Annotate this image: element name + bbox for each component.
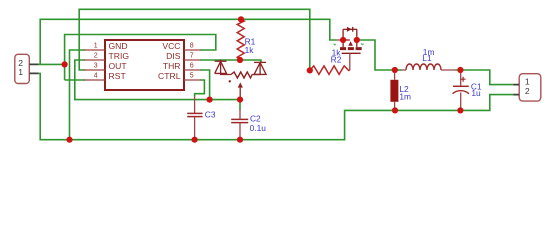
svg-text:C2: C2 — [250, 113, 261, 123]
connector J-left body — [15, 54, 29, 83]
capacitor C1 plus sign — [461, 77, 466, 82]
wire THR drop — [200, 70, 210, 100]
svg-text:OUT: OUT — [109, 61, 128, 71]
svg-text:THR: THR — [163, 61, 181, 71]
wire DIS row — [200, 60, 261, 62]
transistor Q1 channel bars — [340, 47, 362, 50]
IC U1 pin names right — [158, 41, 181, 81]
svg-text:1k: 1k — [245, 45, 255, 55]
svg-text:C3: C3 — [205, 109, 216, 119]
wire connector pin2 to VCC node — [39, 63, 65, 65]
wire CTRL jog to C3 — [195, 80, 205, 97]
transistor Q1 body line and arrow — [343, 39, 350, 41]
capacitor C2 — [239, 110, 241, 120]
IC U1 pin names left — [109, 41, 130, 81]
resistor R2 — [310, 66, 350, 75]
transistor Q1 body diode — [347, 27, 352, 32]
svg-text:5: 5 — [190, 73, 194, 80]
transistor Q1 source pin lead — [337, 39, 344, 41]
svg-text:7: 7 — [190, 53, 194, 60]
wire VCC vertical to IC top and VCC pin — [65, 35, 216, 81]
svg-text:8: 8 — [190, 43, 194, 50]
transistor Q1 P-MOSFET bracket — [343, 28, 357, 30]
connector J-left pin stubs — [29, 64, 38, 73]
wire RST to VCC — [65, 79, 85, 81]
svg-text:TRIG: TRIG — [109, 51, 130, 61]
svg-text:1u: 1u — [471, 88, 481, 98]
wire GND pin1 down — [70, 50, 86, 140]
svg-text:RST: RST — [109, 71, 127, 81]
IC U1 body — [105, 40, 184, 90]
transistor Q1 drain post — [356, 29, 358, 47]
svg-text:VCC: VCC — [162, 41, 180, 51]
svg-text:4: 4 — [94, 73, 98, 80]
inductor L1 — [406, 64, 441, 70]
diode D-right — [252, 62, 266, 74]
wire L1 left — [395, 69, 402, 71]
potentiometer wiper arrow — [238, 82, 243, 87]
capacitor C1 polarized — [460, 70, 462, 86]
wire connector pin1 / bottom rail / right section — [39, 73, 514, 139]
svg-text:L1: L1 — [422, 53, 432, 63]
wire TRIG down and across — [75, 60, 240, 100]
wire OUT rail top — [79, 9, 310, 70]
svg-text:3: 3 — [94, 63, 98, 70]
svg-text:1m: 1m — [399, 91, 411, 101]
resistor R1 — [237, 19, 244, 60]
svg-text:R2: R2 — [331, 54, 342, 64]
IC U1 pin numbers left — [94, 43, 98, 80]
capacitor C3 — [194, 97, 196, 114]
potentiometer pin1 dot — [229, 80, 231, 82]
connector J-right body — [519, 74, 541, 101]
diode D-left — [215, 60, 231, 75]
connector J-right pin stubs — [514, 85, 520, 95]
IC U1 right pins — [184, 50, 201, 80]
wire VCC rail — [40, 19, 336, 64]
svg-text:1: 1 — [18, 67, 23, 77]
transistor Q1 gate bar — [342, 52, 361, 54]
transistor Q1 gate lead — [349, 53, 351, 70]
IC U1 pin numbers right — [190, 43, 194, 80]
transistor Q1 source post — [342, 29, 344, 47]
ERC marker right — [361, 43, 364, 44]
wire L1 right to C1 to right connector pin1 — [455, 70, 514, 85]
svg-text:DIS: DIS — [166, 51, 181, 61]
svg-text:6: 6 — [190, 63, 194, 70]
wire C2 top — [239, 100, 241, 110]
svg-text:1: 1 — [94, 43, 98, 50]
svg-text:CTRL: CTRL — [158, 71, 181, 81]
svg-text:0.1u: 0.1u — [250, 123, 267, 133]
ERC marker left — [334, 44, 337, 45]
svg-text:2: 2 — [525, 86, 530, 96]
IC U1 left pins — [84, 50, 105, 80]
potentiometer RV1 zigzag — [231, 72, 252, 78]
wire drain to LC node — [357, 40, 395, 70]
svg-text:2: 2 — [94, 53, 98, 60]
svg-text:GND: GND — [109, 41, 128, 51]
inductor L2 — [394, 70, 396, 80]
